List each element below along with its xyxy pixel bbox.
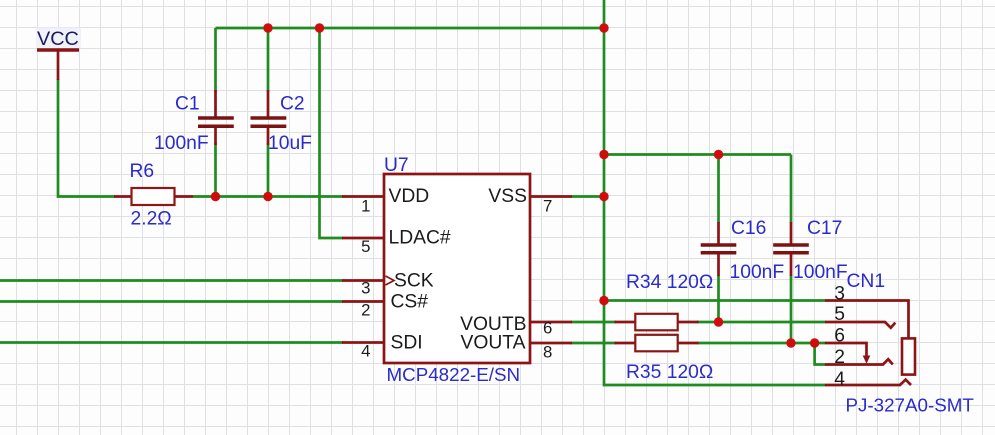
CN1 pin 4 lead with contact tick [825,380,911,385]
junction pin3 branch [599,296,608,305]
svg-text:5: 5 [834,304,845,325]
wire CS# input [0,300,343,303]
svg-text:SDI: SDI [391,333,423,354]
pin 3 SCK stub [342,279,384,282]
capacitor C2 [251,90,287,145]
wire R6 output to VDD pin [193,195,343,198]
wire C17 lower lead [790,275,793,343]
pin 6 VOUTB stub [530,321,572,324]
svg-text:CN1: CN1 [847,271,886,292]
svg-text:R6: R6 [130,161,155,182]
svg-text:2: 2 [361,301,370,320]
wire SCK input [0,279,343,282]
power symbol VCC [37,50,79,80]
junction C2 top [263,23,272,32]
connector CN1 PJ-327A0-SMT [825,301,915,386]
svg-text:R35 120Ω: R35 120Ω [626,362,713,383]
svg-text:PJ-327A0-SMT: PJ-327A0-SMT [846,395,975,416]
wire branch to CN1 pin2 [815,343,826,365]
wire LDAC# from top rail [320,28,344,238]
resistor R35 [615,335,699,352]
junction C2 bottom [263,192,272,201]
svg-text:C1: C1 [175,94,200,115]
wire C16 upper lead [717,155,720,224]
svg-text:C17: C17 [807,218,842,239]
CN1 pin 2 lead with contact tick [825,359,893,364]
svg-text:VCC: VCC [37,28,79,50]
junction LDAC top [315,23,324,32]
junction C17 bottom [786,338,795,347]
svg-text:10uF: 10uF [268,133,312,154]
svg-text:C2: C2 [280,94,305,115]
svg-text:100nF: 100nF [730,262,785,283]
svg-text:4: 4 [361,342,370,361]
svg-text:C16: C16 [731,218,766,239]
junction main vertical top [599,23,608,32]
CN1 pin 6 lead with switch arrow [825,343,867,357]
junction C16 top [714,150,723,159]
svg-text:VSS: VSS [488,186,527,207]
capacitor C17 [773,222,809,276]
svg-text:2: 2 [834,347,845,368]
wire C16 C17 top rail [604,153,791,156]
junction C16 bottom [714,317,723,326]
net label VCC highlight [36,28,81,48]
pin 2 CS stub [342,300,384,303]
wire R35 to CN1 pin6 [697,342,826,345]
wire VSS pin to vertical [571,195,604,198]
wire VCC vertical to R6 row [58,79,115,197]
resistor R34 [615,314,699,331]
capacitor C1 [198,90,234,145]
svg-text:LDAC#: LDAC# [389,228,451,249]
wire vertical to CN1 pin3 [604,299,826,302]
wire VOUTB to R34 [571,321,616,324]
resistor R6 [114,188,193,205]
wire top VCC rail [216,27,605,30]
svg-text:CS#: CS# [391,292,429,313]
svg-text:3: 3 [834,284,845,305]
wire C2 lower lead [267,143,270,197]
wire C1 lower lead [214,143,217,197]
svg-text:2.2Ω: 2.2Ω [131,209,172,230]
svg-text:1: 1 [361,197,370,216]
IC body rectangle [384,174,530,363]
pin 4 SDI stub [342,341,384,344]
op-amp U7 body MCP4822 [342,174,572,363]
CN1 pin 3 lead [825,301,909,339]
pin 5 LDAC stub [342,237,384,240]
svg-text:6: 6 [543,319,552,338]
wire C1 upper lead [214,28,217,92]
capacitor C16 [701,222,737,276]
wire main vertical VSS net [604,0,826,385]
svg-text:7: 7 [543,197,552,216]
svg-text:VOUTA: VOUTA [461,333,526,354]
junction VSS node [599,192,608,201]
svg-text:R34 120Ω: R34 120Ω [626,272,713,293]
svg-text:5: 5 [361,237,370,256]
junction pin2 branch [810,338,819,347]
CN1 pin 5 lead with contact tick [825,322,895,328]
svg-text:U7: U7 [384,155,409,176]
wire SDI input [0,341,343,344]
wire C17 upper lead [790,155,793,224]
svg-text:8: 8 [543,343,552,362]
svg-text:4: 4 [834,369,845,390]
pin 1 VDD stub [342,195,384,198]
wire C16 lower lead [717,275,720,322]
junction C1 bottom [211,192,220,201]
svg-text:6: 6 [834,326,845,347]
svg-text:100nF: 100nF [793,262,848,283]
CN1 sleeve contact rectangle [902,338,915,374]
pin 7 VSS stub [530,195,572,198]
svg-text:VDD: VDD [389,186,430,207]
junction C16 rail [599,150,608,159]
svg-text:MCP4822-E/SN: MCP4822-E/SN [387,364,521,385]
svg-text:3: 3 [361,279,370,298]
svg-text:100nF: 100nF [154,133,209,154]
wire VOUTA to R35 [571,342,616,345]
pin 8 VOUTA stub [530,342,572,345]
wire C2 upper lead [267,28,270,92]
svg-text:SCK: SCK [394,271,434,292]
wire R34 to CN1 pin5 [697,321,826,324]
clock mark on SCK [386,276,395,285]
